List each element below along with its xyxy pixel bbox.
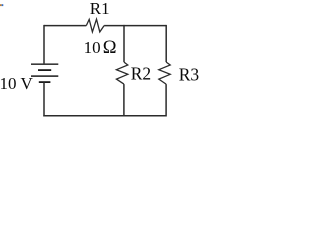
resistor R3 — [159, 62, 170, 84]
battery V1 plate long top — [31, 63, 58, 65]
svg-text:R3: R3 — [179, 64, 199, 84]
battery V1 plate short upper — [38, 69, 51, 71]
battery V1 plate long lower — [31, 75, 58, 77]
wire top-right segment — [104, 25, 166, 27]
wire R2 branch lower — [123, 84, 125, 116]
wire left vertical lower — [43, 82, 45, 116]
svg-text:R2: R2 — [131, 63, 151, 83]
resistor R1 — [86, 19, 104, 32]
wire top-left segment — [44, 25, 86, 27]
svg-text:R1: R1 — [90, 0, 110, 18]
resistor R2 — [116, 62, 127, 84]
artifact mark top-left — [0, 4, 3, 6]
wire left vertical upper — [43, 25, 45, 64]
svg-text:Ω: Ω — [103, 38, 117, 58]
wire right vertical lower — [165, 84, 167, 116]
wire R2 branch upper — [123, 25, 125, 62]
wire bottom segment — [43, 115, 166, 117]
battery V1 plate short bottom — [39, 81, 51, 83]
svg-text:10: 10 — [84, 38, 101, 57]
wire right vertical upper — [165, 25, 167, 62]
svg-text:10 V: 10 V — [0, 74, 33, 93]
